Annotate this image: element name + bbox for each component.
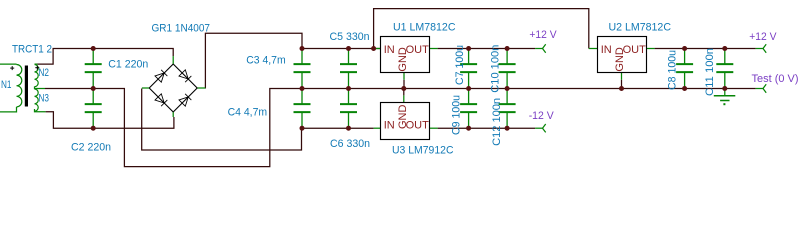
svg-text:C9 100u: C9 100u xyxy=(451,95,463,135)
svg-text:N1: N1 xyxy=(1,79,12,91)
svg-text:C1 220n: C1 220n xyxy=(108,58,148,70)
svg-text:OUT: OUT xyxy=(406,44,430,56)
svg-text:U2 LM7812C: U2 LM7812C xyxy=(609,22,672,34)
svg-text:C7 100u: C7 100u xyxy=(454,45,466,85)
svg-text:Test (0 V): Test (0 V) xyxy=(752,73,799,85)
svg-text:GND: GND xyxy=(397,105,409,130)
svg-text:OUT: OUT xyxy=(623,44,647,56)
svg-text:GR1 1N4007: GR1 1N4007 xyxy=(152,23,211,35)
svg-text:GND: GND xyxy=(397,47,409,72)
svg-text:C5 330n: C5 330n xyxy=(330,31,370,43)
svg-text:TRCT1 2: TRCT1 2 xyxy=(12,44,52,56)
svg-text:C2 220n: C2 220n xyxy=(71,141,111,153)
svg-text:N3: N3 xyxy=(39,93,50,105)
svg-text:C12 100n: C12 100n xyxy=(491,98,503,146)
svg-text:U1 LM7812C: U1 LM7812C xyxy=(393,22,456,34)
svg-text:GND: GND xyxy=(614,47,626,72)
svg-text:+12 V: +12 V xyxy=(749,31,777,43)
svg-text:OUT: OUT xyxy=(406,119,430,131)
svg-text:+12 V: +12 V xyxy=(529,29,557,41)
svg-text:IN: IN xyxy=(384,119,395,131)
svg-text:C11 100n: C11 100n xyxy=(704,48,716,96)
svg-text:C3 4,7m: C3 4,7m xyxy=(246,54,286,66)
svg-text:C6 330n: C6 330n xyxy=(330,138,370,150)
svg-text:IN: IN xyxy=(384,44,395,56)
svg-text:N2: N2 xyxy=(39,67,50,79)
svg-text:C10 100n: C10 100n xyxy=(490,45,502,93)
svg-text:U3 LM7912C: U3 LM7912C xyxy=(392,145,454,157)
svg-text:C4 4,7m: C4 4,7m xyxy=(228,107,268,119)
svg-text:-12 V: -12 V xyxy=(529,110,555,122)
svg-text:IN: IN xyxy=(601,44,612,56)
svg-text:C8 100u: C8 100u xyxy=(667,50,679,90)
